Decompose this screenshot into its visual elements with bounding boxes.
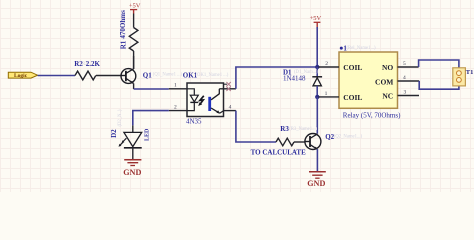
wire junction to D1: [316, 67, 318, 76]
wire OK1 pin2 to D2: [133, 111, 169, 126]
wire R3 to Q2 base: [294, 141, 305, 143]
power +5V (left): [129, 3, 141, 14]
wire COM to T1 bottom: [419, 81, 459, 89]
power +5V (right): [310, 15, 322, 27]
svg-text:D2: D2: [110, 129, 118, 138]
wire junction to Q2 collector: [316, 97, 318, 134]
svg-text:Logic: Logic: [14, 73, 28, 79]
wire port to R2: [38, 75, 75, 77]
resistor R1: [119, 10, 138, 69]
svg-text:(Rel_Name1...): (Rel_Name1...): [347, 46, 376, 51]
svg-text:(R3_Name1...): (R3_Name1...): [289, 127, 317, 132]
optocoupler OK1: [169, 72, 236, 126]
relay pin 3 NC: [382, 90, 419, 101]
svg-text:NC: NC: [382, 92, 393, 101]
svg-text:(Q2_Name1...): (Q2_Name1...): [334, 135, 363, 140]
svg-text:LED: LED: [144, 128, 150, 141]
svg-text:2: 2: [174, 104, 177, 110]
LED D2: [110, 109, 150, 159]
svg-text:4N35: 4N35: [186, 117, 202, 125]
relay *1 box (5V, 70Ohms): [339, 45, 401, 120]
svg-text:Relay (5V, 70Ohms): Relay (5V, 70Ohms): [343, 111, 401, 119]
wire Q1 emitter to OK1 pin1: [134, 88, 169, 90]
svg-text:4: 4: [403, 75, 406, 81]
svg-text:(D2_N..): (D2_N..): [118, 109, 123, 126]
wire R2 to Q1 base: [96, 75, 121, 77]
background sheet: [0, 0, 474, 192]
relay pin 4 COM: [375, 75, 419, 86]
svg-text:R1: R1: [119, 40, 127, 49]
svg-text:1: 1: [174, 83, 177, 89]
node junction coil bottom / Q2 collector: [315, 95, 319, 99]
relay pin 5 NO: [382, 61, 419, 72]
svg-text:COM: COM: [375, 78, 393, 87]
svg-text:3: 3: [404, 90, 407, 96]
svg-text:(Q1_Name1 ...): (Q1_Name1 ...): [153, 73, 183, 78]
wire Q2 emitter to GND: [316, 149, 318, 172]
svg-text:2.2K: 2.2K: [86, 60, 101, 68]
svg-text:2: 2: [325, 61, 328, 67]
svg-text:T1: T1: [466, 69, 474, 76]
svg-text:5: 5: [403, 61, 406, 67]
wire OK1 pin5 to +5V rail: [236, 67, 317, 89]
relay pin 2 COIL: [319, 61, 363, 72]
wire NO to T1 top: [419, 60, 459, 71]
relay pin 1 COIL: [319, 91, 363, 102]
ground GND (right): [307, 172, 326, 188]
svg-text:R3: R3: [280, 125, 289, 133]
port Logic: [8, 72, 37, 79]
ground GND (left): [123, 160, 141, 177]
svg-text:COIL: COIL: [343, 93, 362, 102]
connector T1: [453, 68, 474, 86]
resistor R3: [251, 125, 318, 157]
node junction at +5V / coil top: [315, 65, 319, 69]
svg-text:(OK1_Name1 ...): (OK1_Name1 ...): [196, 73, 229, 78]
svg-text:1: 1: [325, 91, 328, 97]
diode D1: [283, 69, 322, 86]
svg-text:NO: NO: [382, 63, 393, 72]
svg-text:+5V: +5V: [310, 15, 322, 22]
svg-text:GND: GND: [307, 179, 325, 188]
svg-text:Q1: Q1: [143, 71, 152, 79]
svg-text:COIL: COIL: [343, 63, 362, 72]
svg-text:TO CALCULATE: TO CALCULATE: [251, 149, 307, 157]
wire +5V down to junction: [316, 27, 318, 67]
resistor R2: [74, 60, 100, 80]
wire D1 to lower junction: [316, 86, 318, 97]
transistor Q1: [121, 56, 183, 89]
svg-text:GND: GND: [123, 168, 141, 177]
svg-text:470Ohms: 470Ohms: [119, 10, 127, 39]
transistor Q2: [305, 133, 363, 150]
svg-text:1N4148: 1N4148: [283, 75, 306, 83]
svg-text:4: 4: [229, 104, 232, 110]
svg-text:+5V: +5V: [129, 3, 141, 10]
wire OK1 pin4 down to R3: [236, 111, 276, 142]
